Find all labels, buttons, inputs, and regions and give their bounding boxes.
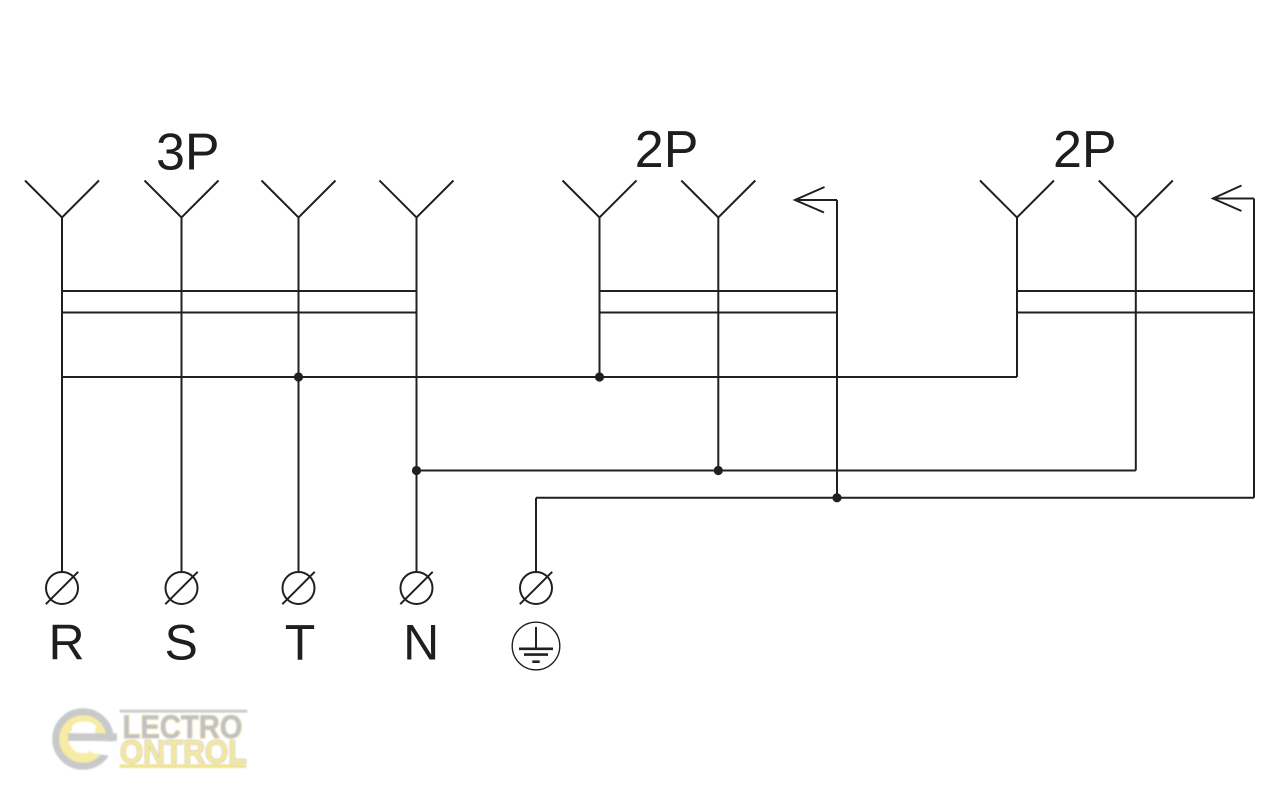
- ground symbol bar 1: [519, 647, 553, 650]
- svg-text:N: N: [403, 615, 439, 671]
- wire QF2 pole 2 vertical: [717, 218, 719, 471]
- logo letter e aperture cutout: [86, 742, 118, 758]
- logo letter e outer gray ring: [56, 712, 110, 766]
- breaker QF2 pole 1 contact fork: [563, 181, 637, 218]
- terminal N circle: [401, 572, 433, 604]
- breaker QF3 pole 1 contact fork: [980, 181, 1054, 218]
- svg-text:T: T: [285, 615, 316, 671]
- breaker QF1 pole 3 contact fork: [262, 181, 336, 218]
- node junction T-QF2: [595, 372, 604, 381]
- ground symbol stem: [535, 627, 537, 649]
- arrow QF3 actuator head: [1213, 186, 1242, 212]
- terminal PE slash: [520, 572, 552, 604]
- svg-text:R: R: [48, 615, 84, 671]
- wire QF3 pole 1 vertical: [1016, 218, 1018, 378]
- wire QF1 pole 1 vertical (phase R): [61, 218, 63, 573]
- wire net T distribution horizontal: [62, 376, 1017, 378]
- breaker QF1 pole 4 contact fork: [380, 181, 454, 218]
- logo letter e gray crossbar: [68, 733, 117, 741]
- wire QF2 actuator vertical: [836, 200, 838, 498]
- node junction N-pole4: [412, 466, 421, 475]
- node junction T-pole3: [294, 372, 303, 381]
- svg-text:S: S: [165, 615, 198, 671]
- wire net N distribution horizontal: [417, 470, 1136, 472]
- wire net PE terminal stem: [535, 498, 537, 572]
- arrow QF3 actuator shaft: [1213, 198, 1254, 200]
- breaker QF1 pole 2 contact fork: [145, 181, 219, 218]
- node junction PE-QF2: [832, 493, 841, 502]
- breaker QF1 trip-bar upper line: [62, 290, 417, 292]
- svg-text:2P: 2P: [1053, 121, 1117, 179]
- breaker QF3 trip-bar upper line: [1017, 290, 1254, 292]
- arrow QF2 actuator head: [795, 187, 825, 213]
- logo letter e yellow ring: [64, 720, 102, 758]
- breaker QF3 pole 2 contact fork: [1099, 181, 1173, 218]
- terminal N slash: [400, 572, 432, 604]
- logo Electro Control watermark: [56, 709, 247, 770]
- breaker QF1 trip-bar lower line: [62, 312, 417, 314]
- wire QF1 pole 4 vertical (neutral): [416, 218, 418, 573]
- wire QF2 pole 1 vertical: [599, 218, 601, 378]
- terminal S circle: [166, 572, 198, 604]
- svg-text:3P: 3P: [156, 124, 220, 182]
- terminal T slash: [282, 572, 314, 604]
- wire QF1 pole 3 vertical (phase T): [298, 218, 300, 573]
- terminal T circle: [283, 572, 315, 604]
- wire QF3 pole 2 vertical: [1135, 218, 1137, 471]
- terminal PE circle: [520, 572, 552, 604]
- terminal R circle: [46, 572, 78, 604]
- ground symbol bar 2: [524, 653, 548, 656]
- terminal S slash: [165, 572, 197, 604]
- svg-text:2P: 2P: [635, 121, 699, 179]
- wire QF1 pole 2 vertical (phase S): [181, 218, 183, 573]
- terminal R slash: [46, 572, 78, 604]
- logo top gray bar: [120, 710, 248, 713]
- wire net PE distribution horizontal: [536, 497, 1254, 499]
- breaker QF2 pole 2 contact fork: [681, 181, 755, 218]
- logo letter e white counter: [72, 722, 96, 734]
- arrow QF2 actuator shaft: [795, 199, 837, 201]
- breaker QF2 trip-bar upper line: [600, 290, 838, 292]
- ground symbol (protective earth) circle: [512, 622, 560, 670]
- breaker QF1 pole 1 contact fork: [25, 181, 99, 218]
- node junction N-QF2: [714, 466, 723, 475]
- breaker QF2 trip-bar lower line: [600, 312, 838, 314]
- logo bottom yellow bar: [120, 764, 247, 768]
- wire QF3 actuator vertical: [1253, 199, 1255, 498]
- ground symbol bar 3: [532, 660, 539, 663]
- breaker QF3 trip-bar lower line: [1017, 312, 1254, 314]
